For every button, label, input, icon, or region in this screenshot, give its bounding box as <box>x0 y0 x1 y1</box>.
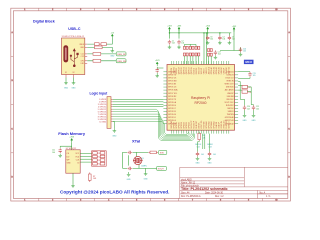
svg-text:GPIO9 TX: GPIO9 TX <box>168 99 177 101</box>
resistor R8 <box>148 151 158 154</box>
power +3V3 c <box>205 26 209 32</box>
C20 value <box>247 106 250 110</box>
svg-text:8: 8 <box>220 199 221 201</box>
svg-text:R11: R11 <box>98 153 101 155</box>
capacitor C3 <box>206 36 209 41</box>
svg-text:GND: GND <box>243 120 248 122</box>
wire GPIO17 bus bend <box>113 121 189 134</box>
svg-text:S2: S2 <box>73 72 75 74</box>
wire GPIO8 to MCU <box>113 98 164 100</box>
svg-text:Logic Input: Logic Input <box>90 92 109 96</box>
svg-text:ADC AVDD: ADC AVDD <box>225 89 235 92</box>
svg-text:GPIO10 A: GPIO10 A <box>168 101 177 104</box>
U1 right pin stubs <box>235 72 239 124</box>
svg-text:104: 104 <box>243 51 246 53</box>
svg-text:+3V3: +3V3 <box>69 136 75 138</box>
svg-text:XOUT OSC: XOUT OSC <box>224 102 234 104</box>
capacitor C1 <box>168 40 171 45</box>
J1 pin stubs <box>111 99 113 121</box>
wire GPIO15 bus bend <box>113 117 191 137</box>
svg-text:GPIO8 RX: GPIO8 RX <box>168 96 177 98</box>
svg-text:MCU: MCU <box>245 60 252 64</box>
svg-text:XTal: XTal <box>132 139 140 144</box>
border frame inner <box>13 11 287 199</box>
svg-text:picoLABO: picoLABO <box>181 178 192 181</box>
capacitor C2 <box>177 40 180 45</box>
svg-text:Size: A4: Size: A4 <box>181 192 190 195</box>
svg-text:9: 9 <box>248 199 249 201</box>
svg-text:GND: GND <box>110 56 115 58</box>
X1 pin stubs bottom <box>66 75 74 78</box>
power +3V3 flash <box>69 136 75 142</box>
svg-text:C22: C22 <box>197 146 200 148</box>
svg-text:USB_DP: USB_DP <box>117 54 126 56</box>
svg-text:Date: 2024-06-30: Date: 2024-06-30 <box>205 192 224 195</box>
C22 C23 values <box>201 154 216 156</box>
ground U2 <box>71 184 75 188</box>
copyright note <box>60 190 169 195</box>
ground C5 <box>228 41 232 45</box>
svg-text:XIN OSC: XIN OSC <box>226 99 234 101</box>
title block doc row <box>181 195 224 198</box>
svg-text:104: 104 <box>172 43 175 45</box>
wire J1 pin10 to ground <box>113 121 115 128</box>
wire +3V3 to C24 branch <box>220 30 241 51</box>
svg-text:DN1: DN1 <box>81 63 84 65</box>
svg-text:GND: GND <box>72 88 77 90</box>
svg-text:10 GND: 10 GND <box>99 121 106 123</box>
resistor R7 <box>89 172 92 182</box>
ground C11 <box>58 154 62 158</box>
svg-text:GND: GND <box>112 135 117 137</box>
svg-text:USB DP: USB DP <box>227 93 234 95</box>
R5 label <box>202 135 206 139</box>
wire X1 GND pin <box>87 47 112 49</box>
svg-text:10K: 10K <box>93 178 97 180</box>
flash U2 body <box>66 150 80 173</box>
U1 bottom pin stubs <box>171 130 229 133</box>
power +3V3 e <box>232 26 236 32</box>
svg-text:GPIO5 CS: GPIO5 CS <box>168 87 177 89</box>
net label USB_DP <box>116 52 126 56</box>
svg-text:GND: GND <box>64 88 69 90</box>
C5 value <box>232 36 235 40</box>
capacitor C14 <box>127 167 132 170</box>
svg-text:No. A: No. A <box>260 192 266 195</box>
svg-text:GPIO12 C: GPIO12 C <box>168 108 177 110</box>
resistor R2 <box>95 46 103 49</box>
title block number cell <box>260 192 272 199</box>
svg-text:1 / 1: 1 / 1 <box>266 196 271 198</box>
svg-text:GND: GND <box>252 120 257 122</box>
USB-C shell slot <box>63 45 68 62</box>
ground C23 <box>208 157 213 165</box>
capacitor C5 <box>228 36 231 41</box>
svg-text:104: 104 <box>181 43 184 45</box>
svg-text:GPIO6 SDA: GPIO6 SDA <box>168 89 178 92</box>
Q1 value <box>141 158 147 167</box>
bypass bank B wires <box>209 56 212 64</box>
svg-text:VREG IN: VREG IN <box>226 81 234 83</box>
C3 value <box>210 36 213 40</box>
resistor R3 <box>93 53 101 56</box>
svg-text:VREG OUT: VREG OUT <box>224 84 234 86</box>
svg-text:Flash Memory: Flash Memory <box>58 131 86 136</box>
svg-text:Digital Block: Digital Block <box>33 20 55 24</box>
capacitor C22 <box>196 152 199 157</box>
svg-text:RUN RST: RUN RST <box>226 105 235 107</box>
svg-text:12MHz: 12MHz <box>141 165 147 167</box>
svg-text:104: 104 <box>213 154 216 156</box>
svg-text:+3V3: +3V3 <box>167 26 171 28</box>
rail junction dots <box>169 32 221 33</box>
svg-text:+3V3: +3V3 <box>177 26 181 28</box>
svg-text:5: 5 <box>136 199 137 201</box>
fuse F1 <box>95 43 100 46</box>
ground C21 <box>253 110 255 113</box>
ground C20 <box>244 110 246 113</box>
svg-text:SWCLK: SWCLK <box>227 108 234 110</box>
MCU U1 body <box>167 65 235 131</box>
svg-text:2: 2 <box>52 9 53 11</box>
ground C17 <box>214 55 218 59</box>
frame reference ticks <box>11 8 291 201</box>
wire USB_DP <box>87 53 116 55</box>
svg-text:Q1: Q1 <box>141 158 143 160</box>
wire C12 <box>157 67 163 74</box>
capacitor C20 <box>243 105 246 110</box>
ground below X1 pin1 <box>64 81 69 90</box>
svg-text:GND: GND <box>196 162 201 164</box>
connector X1 USB-C label <box>62 36 84 38</box>
svg-text:GPIO7 SCL: GPIO7 SCL <box>168 93 177 95</box>
svg-text:8: 8 <box>220 9 221 11</box>
wire X1 bottom pin2 to ground <box>73 78 75 82</box>
MCU block label <box>244 60 254 64</box>
resistor R9 block <box>242 85 247 93</box>
X1 bottom pin names <box>65 72 75 74</box>
section title XTal <box>132 139 140 144</box>
capacitor C11 <box>59 148 62 153</box>
wire X1 bottom pin1 to ground <box>65 78 67 82</box>
ground below X1 pin2 <box>72 81 77 90</box>
svg-text:2: 2 <box>52 199 53 201</box>
net label SWCLK <box>195 144 202 148</box>
capacitor C24 <box>239 47 242 52</box>
U1 left pin names <box>168 71 178 125</box>
svg-text:GPIO13 D: GPIO13 D <box>168 111 177 113</box>
wire USB_DN <box>87 60 116 62</box>
resistor network RN1 pads <box>92 151 107 166</box>
ground C1 <box>168 45 172 49</box>
svg-text:10: 10 <box>275 9 277 11</box>
svg-text:104: 104 <box>232 38 235 40</box>
capacitor C21 <box>252 105 255 110</box>
svg-text:USB DM: USB DM <box>227 96 234 98</box>
svg-text:4: 4 <box>108 199 109 201</box>
svg-text:XOUT 12: XOUT 12 <box>228 67 230 74</box>
ground C22 <box>196 157 201 165</box>
svg-text:R12: R12 <box>98 156 101 158</box>
capacitor C17 <box>214 50 217 55</box>
wire xtal bottom <box>123 155 157 172</box>
capacitor C13 <box>127 151 132 154</box>
svg-text:+5V: +5V <box>110 32 114 34</box>
wire GPIO9 to MCU <box>113 101 164 103</box>
svg-text:R14: R14 <box>98 164 101 166</box>
svg-text:XOUT: XOUT <box>158 169 165 171</box>
U1 top pin stubs <box>171 61 229 65</box>
svg-text:GPIO3 MO: GPIO3 MO <box>168 81 177 83</box>
bypass bank wires <box>184 44 198 64</box>
svg-text:6: 6 <box>164 9 165 11</box>
ground C12 <box>155 74 159 78</box>
svg-text:Title: PL2041202 schematic: Title: PL2041202 schematic <box>181 187 228 191</box>
svg-text:RP2040: RP2040 <box>195 101 207 105</box>
svg-text:+3V3: +3V3 <box>232 26 236 28</box>
svg-text:3: 3 <box>80 9 81 11</box>
svg-text:GPIO4 MI: GPIO4 MI <box>168 84 176 86</box>
svg-text:GPIO2 CK: GPIO2 CK <box>168 78 177 80</box>
wire GPIO14 bus bend <box>113 114 193 138</box>
svg-text:7: 7 <box>192 9 193 11</box>
ground C2 <box>177 45 181 49</box>
capacitor C19 <box>248 72 251 77</box>
svg-text:TESTEN: TESTEN <box>227 114 235 116</box>
svg-text:Copyright @2024 picoLABO All R: Copyright @2024 picoLABO All Rights Rese… <box>60 190 169 195</box>
title block title row <box>181 187 228 191</box>
power +3V3 d <box>155 60 159 66</box>
section title Flash Memory <box>58 131 86 136</box>
svg-text:104: 104 <box>222 38 225 40</box>
wires U2 to RN1 <box>80 153 92 162</box>
svg-text:4: 4 <box>108 9 109 11</box>
svg-text:IOVDD 3: IOVDD 3 <box>228 122 230 129</box>
svg-text:GND: GND <box>127 179 132 181</box>
svg-text:SWDIO: SWDIO <box>228 111 235 113</box>
svg-text:Raspberry Pi: Raspberry Pi <box>191 96 210 100</box>
wire GPIO16 bus bend <box>113 119 190 136</box>
resistor R1 <box>99 43 106 46</box>
C2 value <box>181 41 184 45</box>
svg-text:10: 10 <box>275 199 277 201</box>
svg-text:Rev: 1.2: Rev: 1.2 <box>215 196 224 198</box>
svg-text:3: 3 <box>80 199 81 201</box>
svg-text:104: 104 <box>52 152 55 154</box>
svg-text:GPIO14 E: GPIO14 E <box>168 114 177 116</box>
C1 value <box>172 41 175 45</box>
net label SWDIO <box>207 144 213 148</box>
svg-text:GND: GND <box>208 162 213 164</box>
title block frame <box>180 167 288 198</box>
J1 pin name texts <box>98 99 107 123</box>
capacitor C23 <box>208 152 211 157</box>
ground C4 <box>218 41 222 45</box>
C21 value <box>256 106 259 110</box>
wire U2 bottom net <box>72 173 74 184</box>
power +3V3 b <box>177 26 181 32</box>
U1 right pin names <box>224 70 234 125</box>
svg-text:+3V3: +3V3 <box>205 26 209 28</box>
svg-text:DVDD CO: DVDD CO <box>226 78 235 80</box>
svg-text:104: 104 <box>247 108 250 110</box>
title block size date row <box>181 192 224 195</box>
title block company <box>181 178 192 181</box>
crystal Q1 <box>133 156 143 164</box>
svg-text:XIN: XIN <box>160 153 164 155</box>
svg-text:C23: C23 <box>209 146 212 148</box>
USB trident symbol <box>70 49 78 67</box>
capacitor C12 <box>156 68 159 73</box>
svg-text:S1: S1 <box>65 72 67 74</box>
X1 pin stubs right <box>85 44 87 63</box>
svg-text:+3V3: +3V3 <box>155 60 159 62</box>
ground C24 <box>239 52 243 56</box>
connector J1 body <box>107 97 111 129</box>
svg-text:104: 104 <box>218 54 221 56</box>
section title USB-C <box>68 27 81 31</box>
connector X1 USB-C body <box>62 38 85 75</box>
svg-text:1: 1 <box>24 9 25 11</box>
RN1 labels <box>98 153 101 166</box>
svg-text:R9: R9 <box>248 87 250 89</box>
wire +3V3 to U2 <box>60 143 71 150</box>
R9 labels <box>248 87 251 94</box>
bypass cap bank C6-C11 <box>183 46 199 56</box>
ground X1 shield <box>110 49 115 58</box>
C19 value <box>253 73 256 77</box>
C4 value <box>222 36 225 40</box>
svg-text:USB VDD: USB VDD <box>226 87 235 89</box>
svg-text:6: 6 <box>164 199 165 201</box>
wire GPIO13 bus bend <box>113 112 194 139</box>
section title Logic Input <box>90 92 109 96</box>
wire run net <box>198 132 210 152</box>
svg-text:104: 104 <box>201 154 204 156</box>
wire xtal top <box>123 152 149 168</box>
svg-text:GPIO15 F: GPIO15 F <box>168 117 176 119</box>
flash U2 label <box>66 148 76 150</box>
svg-text:GND: GND <box>144 179 149 181</box>
bypass cap bank C15-C16 <box>208 49 213 57</box>
wire GPIO10 to MCU <box>113 103 164 105</box>
title block file row <box>181 185 199 188</box>
wire right nets <box>238 82 253 106</box>
wire swd right a <box>238 72 250 79</box>
net label XIN <box>159 150 167 154</box>
C24 value <box>243 48 246 52</box>
ground C3 <box>206 41 210 45</box>
wire GPIO12 bus bend <box>113 109 195 140</box>
U1 left pin stubs <box>163 72 167 124</box>
svg-text:9: 9 <box>248 9 249 11</box>
capacitor C4 <box>218 36 221 41</box>
C11 value <box>52 150 55 154</box>
net label XOUT <box>157 166 167 170</box>
power +3V3 a <box>167 26 171 32</box>
section title Digital Block <box>33 20 55 24</box>
resistor R5 run pullup <box>198 132 201 142</box>
svg-text:104: 104 <box>210 38 213 40</box>
svg-text:Doc: PL-RP2040-A: Doc: PL-RP2040-A <box>181 195 201 198</box>
svg-text:105: 105 <box>253 75 256 77</box>
C17 value <box>218 51 221 55</box>
R7 label <box>93 176 97 180</box>
power +5V <box>110 32 114 38</box>
U1 bottom pin names <box>170 120 231 129</box>
svg-text:R13: R13 <box>98 160 101 162</box>
svg-text:USB_DN: USB_DN <box>117 61 126 63</box>
svg-text:7: 7 <box>192 199 193 201</box>
svg-text:5: 5 <box>136 9 137 11</box>
net label USB_DN <box>116 59 126 63</box>
U1 top pin names <box>171 66 231 74</box>
svg-text:USB–C: USB–C <box>68 27 81 31</box>
svg-text:Name: JW-12: Name: JW-12 <box>181 182 196 184</box>
wire +3V3 rail <box>169 30 232 64</box>
svg-text:GPIO26 A0: GPIO26 A0 <box>225 116 234 119</box>
border frame outer <box>11 8 291 201</box>
resistor R4 <box>93 59 101 62</box>
X1 right pin names <box>79 44 84 65</box>
wire GPIO11 to MCU <box>113 106 164 108</box>
U1 part name <box>191 96 210 105</box>
svg-text:104: 104 <box>256 108 259 110</box>
svg-text:1: 1 <box>24 199 25 201</box>
svg-text:CC2: CC2 <box>81 56 84 58</box>
ground xtal right <box>144 172 149 181</box>
wire VBUS <box>87 38 112 44</box>
title block name row <box>181 182 196 184</box>
svg-text:GPIO11 B: GPIO11 B <box>168 105 177 107</box>
ground J1 <box>112 129 117 138</box>
ground xtal left <box>127 173 132 182</box>
U2 pin names <box>67 153 80 164</box>
